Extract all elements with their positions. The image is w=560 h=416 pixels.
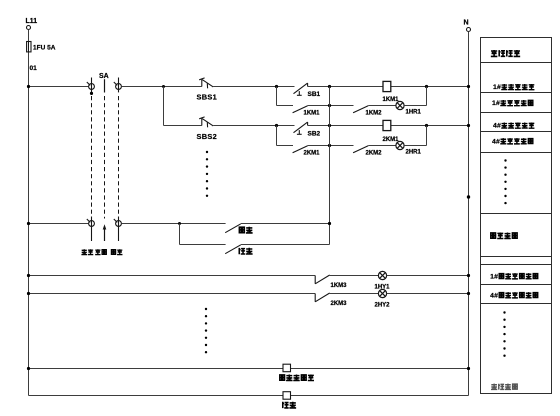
selector switch SA deck2 contact right	[118, 217, 120, 242]
ellipsis dots below SBS2	[206, 151, 208, 153]
wire stop line 2KM3 left	[29, 293, 316, 295]
svg-text:2HR1: 2HR1	[406, 150, 422, 156]
wire clock line	[29, 368, 469, 370]
contact 1KM1	[293, 106, 308, 113]
svg-text:SBS1: SBS1	[197, 92, 218, 101]
wire light branch vertical	[179, 224, 181, 245]
junction auto line x179	[178, 222, 181, 225]
svg-text:#: #	[497, 84, 501, 91]
contact 1KM2	[353, 106, 368, 113]
stray junction on N bus	[467, 195, 470, 198]
wire light line	[29, 395, 469, 397]
contact 2KM1	[293, 146, 308, 153]
junction node329 line2b	[328, 144, 331, 147]
table ellipsis upper	[504, 159, 506, 161]
svg-text:SA: SA	[99, 73, 109, 80]
lamp 2HR1	[396, 141, 404, 149]
wire light branch right	[241, 244, 330, 246]
junction line2 Nbus	[467, 124, 470, 127]
contact SBS2	[201, 118, 203, 125]
wire node329 vertical	[329, 87, 331, 245]
svg-text:SB2: SB2	[308, 131, 321, 138]
lamp 1HY1	[378, 271, 386, 279]
fuse 1FU	[27, 42, 31, 52]
wire light branch left	[180, 244, 226, 246]
SA linkage dashed lines	[91, 96, 93, 217]
wire auto line right	[241, 223, 330, 225]
junction auto node329	[328, 222, 331, 225]
wire stop line 1KM3 right	[387, 275, 469, 277]
svg-text:2KM1: 2KM1	[383, 137, 400, 143]
wire branch 1b right	[368, 105, 396, 107]
annotation table frame	[481, 38, 552, 394]
wire auto line mid	[121, 223, 225, 225]
junction clock bus right	[467, 367, 470, 370]
wire line2 right	[308, 125, 469, 127]
table row remote setting	[491, 384, 497, 390]
coil 1KM1	[383, 81, 391, 91]
table ellipsis lower	[503, 311, 505, 313]
label light-control	[239, 248, 245, 254]
selector switch SA handle deck1	[104, 79, 106, 92]
label SA position manual	[81, 249, 87, 254]
svg-text:#: #	[494, 292, 498, 299]
svg-text:1KM1: 1KM1	[304, 111, 321, 117]
wire line2 vertical from line1	[163, 87, 165, 126]
label SA position auto	[111, 250, 115, 255]
svg-text:#: #	[496, 138, 500, 145]
junction line2 x426	[425, 124, 428, 127]
selector switch SA deck1 contact right	[118, 78, 120, 93]
svg-text:2KM1: 2KM1	[304, 151, 321, 157]
selector switch SA handle deck2 arrow	[104, 229, 106, 242]
svg-text:#: #	[496, 100, 500, 107]
wire auto line left	[29, 223, 89, 225]
wire stop line 2KM3 mid	[330, 293, 379, 295]
wire line1 left	[29, 86, 89, 88]
contact 1KM3	[314, 276, 316, 284]
wire N bus	[468, 32, 470, 396]
svg-text:1KM2: 1KM2	[366, 111, 383, 117]
wire line2 mid	[213, 125, 294, 127]
device time clock controller box	[283, 364, 291, 372]
label time-control	[239, 227, 244, 233]
svg-text:L11: L11	[26, 18, 38, 25]
svg-text:SB1: SB1	[308, 91, 321, 98]
wire line1 after SBS1	[213, 86, 294, 88]
svg-text:#: #	[494, 273, 498, 280]
svg-text:#: #	[497, 123, 501, 130]
contact 2KM2	[353, 146, 368, 153]
junction line1 x276	[275, 85, 278, 88]
junction line2 node329	[328, 124, 331, 127]
wire line1 right	[308, 86, 469, 88]
wire line2 left	[164, 125, 202, 127]
junction line1 branch x163	[162, 85, 165, 88]
coil 2KM1	[383, 120, 391, 130]
wire branch 1b mid	[308, 105, 354, 107]
junction line1 Nbus	[467, 85, 470, 88]
table row fuse protection	[491, 50, 498, 56]
contact light-control	[225, 245, 241, 254]
label time clock controller	[280, 375, 285, 380]
selector switch SA deck1 contact left	[91, 78, 93, 93]
svg-text:1HR1: 1HR1	[406, 110, 422, 116]
junction auto-bus	[27, 222, 30, 225]
junction clock bus left	[27, 367, 30, 370]
wire branch 2b left	[277, 145, 294, 147]
wire branch 1b up	[404, 105, 426, 107]
junction line1 node329	[328, 85, 331, 88]
wire stop line 2KM3 right	[387, 293, 469, 295]
device light control box	[283, 392, 291, 400]
wire line1 middle	[121, 86, 201, 88]
svg-text:1KM3: 1KM3	[331, 283, 348, 289]
junction line2 x276	[275, 124, 278, 127]
wire branch 2b mid	[308, 145, 354, 147]
ellipsis dots lower left	[205, 308, 207, 310]
junction stop 1KM3 Nbus	[467, 274, 470, 277]
lamp 2HY2	[378, 289, 386, 297]
wire branch 2b right	[368, 145, 396, 147]
contact time-control	[225, 224, 241, 233]
svg-text:1FU 5A: 1FU 5A	[33, 45, 56, 52]
terminal L11	[27, 26, 31, 30]
svg-text:01: 01	[30, 65, 38, 72]
label light control device	[283, 402, 289, 408]
table row auto control	[491, 233, 496, 238]
wire stop line 1KM3 mid	[330, 275, 379, 277]
junction stop 2KM3 bus	[27, 292, 30, 295]
wire branch 1b left	[277, 105, 294, 107]
svg-text:2HY2: 2HY2	[375, 303, 391, 309]
junction node329 line1b	[328, 104, 331, 107]
svg-text:2KM3: 2KM3	[331, 301, 348, 307]
contact 2KM3	[314, 294, 316, 302]
svg-text:1KM1: 1KM1	[383, 97, 400, 103]
junction stop 1KM3 bus	[27, 274, 30, 277]
wire branch 2KM1 vertical	[276, 126, 278, 146]
wire left bus	[28, 30, 30, 42]
svg-text:SBS2: SBS2	[197, 132, 218, 141]
label SA position stop	[95, 249, 100, 254]
terminal N	[467, 28, 471, 32]
wire branch 2b up	[404, 145, 426, 147]
pushbutton SB2	[294, 122, 308, 133]
junction line1-bus	[27, 85, 30, 88]
junction SA left linkage	[90, 92, 93, 95]
lamp 1HR1	[396, 101, 404, 109]
wire stop line 1KM3 left	[29, 275, 316, 277]
svg-text:N: N	[464, 20, 469, 27]
pushbutton SB1	[294, 83, 308, 94]
svg-text:2KM2: 2KM2	[366, 151, 383, 157]
wire branch 1KM1 vertical	[276, 87, 278, 106]
junction line1 x426	[425, 85, 428, 88]
selector switch SA deck2 contact left	[91, 217, 93, 242]
contact SBS1	[201, 79, 203, 86]
junction stop 2KM3 Nbus	[467, 292, 470, 295]
